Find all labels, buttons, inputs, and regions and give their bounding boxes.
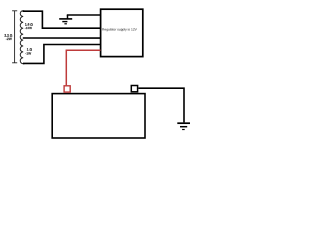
label 1.6 ohm -10W bbox=[25, 23, 33, 30]
wire ground to regulator pin 1 bbox=[67, 14, 101, 16]
label 2.2 ohm -2W bbox=[4, 34, 12, 41]
svg-text:1 Ω: 1 Ω bbox=[27, 48, 32, 52]
svg-text:1.6 Ω: 1.6 Ω bbox=[25, 23, 33, 27]
ground (top) bbox=[59, 15, 72, 24]
wire battery negative to ground bbox=[138, 88, 184, 122]
battery negative terminal bbox=[131, 86, 137, 92]
wire bottom tap to regulator pin 4 bbox=[23, 45, 101, 64]
svg-text:Regulator supply is 12V: Regulator supply is 12V bbox=[102, 28, 137, 32]
battery B1 case bbox=[52, 94, 145, 138]
svg-text:-10W: -10W bbox=[25, 27, 32, 30]
transformer T1 primary bracket bbox=[12, 11, 17, 63]
battery positive terminal (red) bbox=[64, 86, 70, 92]
svg-text:-2W: -2W bbox=[6, 37, 12, 41]
svg-text:-1W: -1W bbox=[25, 52, 31, 56]
ground (bottom right) bbox=[177, 123, 190, 129]
wire red regulator output to battery positive bbox=[66, 50, 100, 85]
wire top tap to regulator pin 2 bbox=[23, 11, 101, 28]
label 1 ohm -1W bbox=[25, 48, 32, 55]
wire middle tap to regulator pin 3 bbox=[23, 37, 101, 39]
transformer T1 secondary winding coil bbox=[20, 11, 25, 64]
regulator U1 box bbox=[101, 9, 143, 56]
